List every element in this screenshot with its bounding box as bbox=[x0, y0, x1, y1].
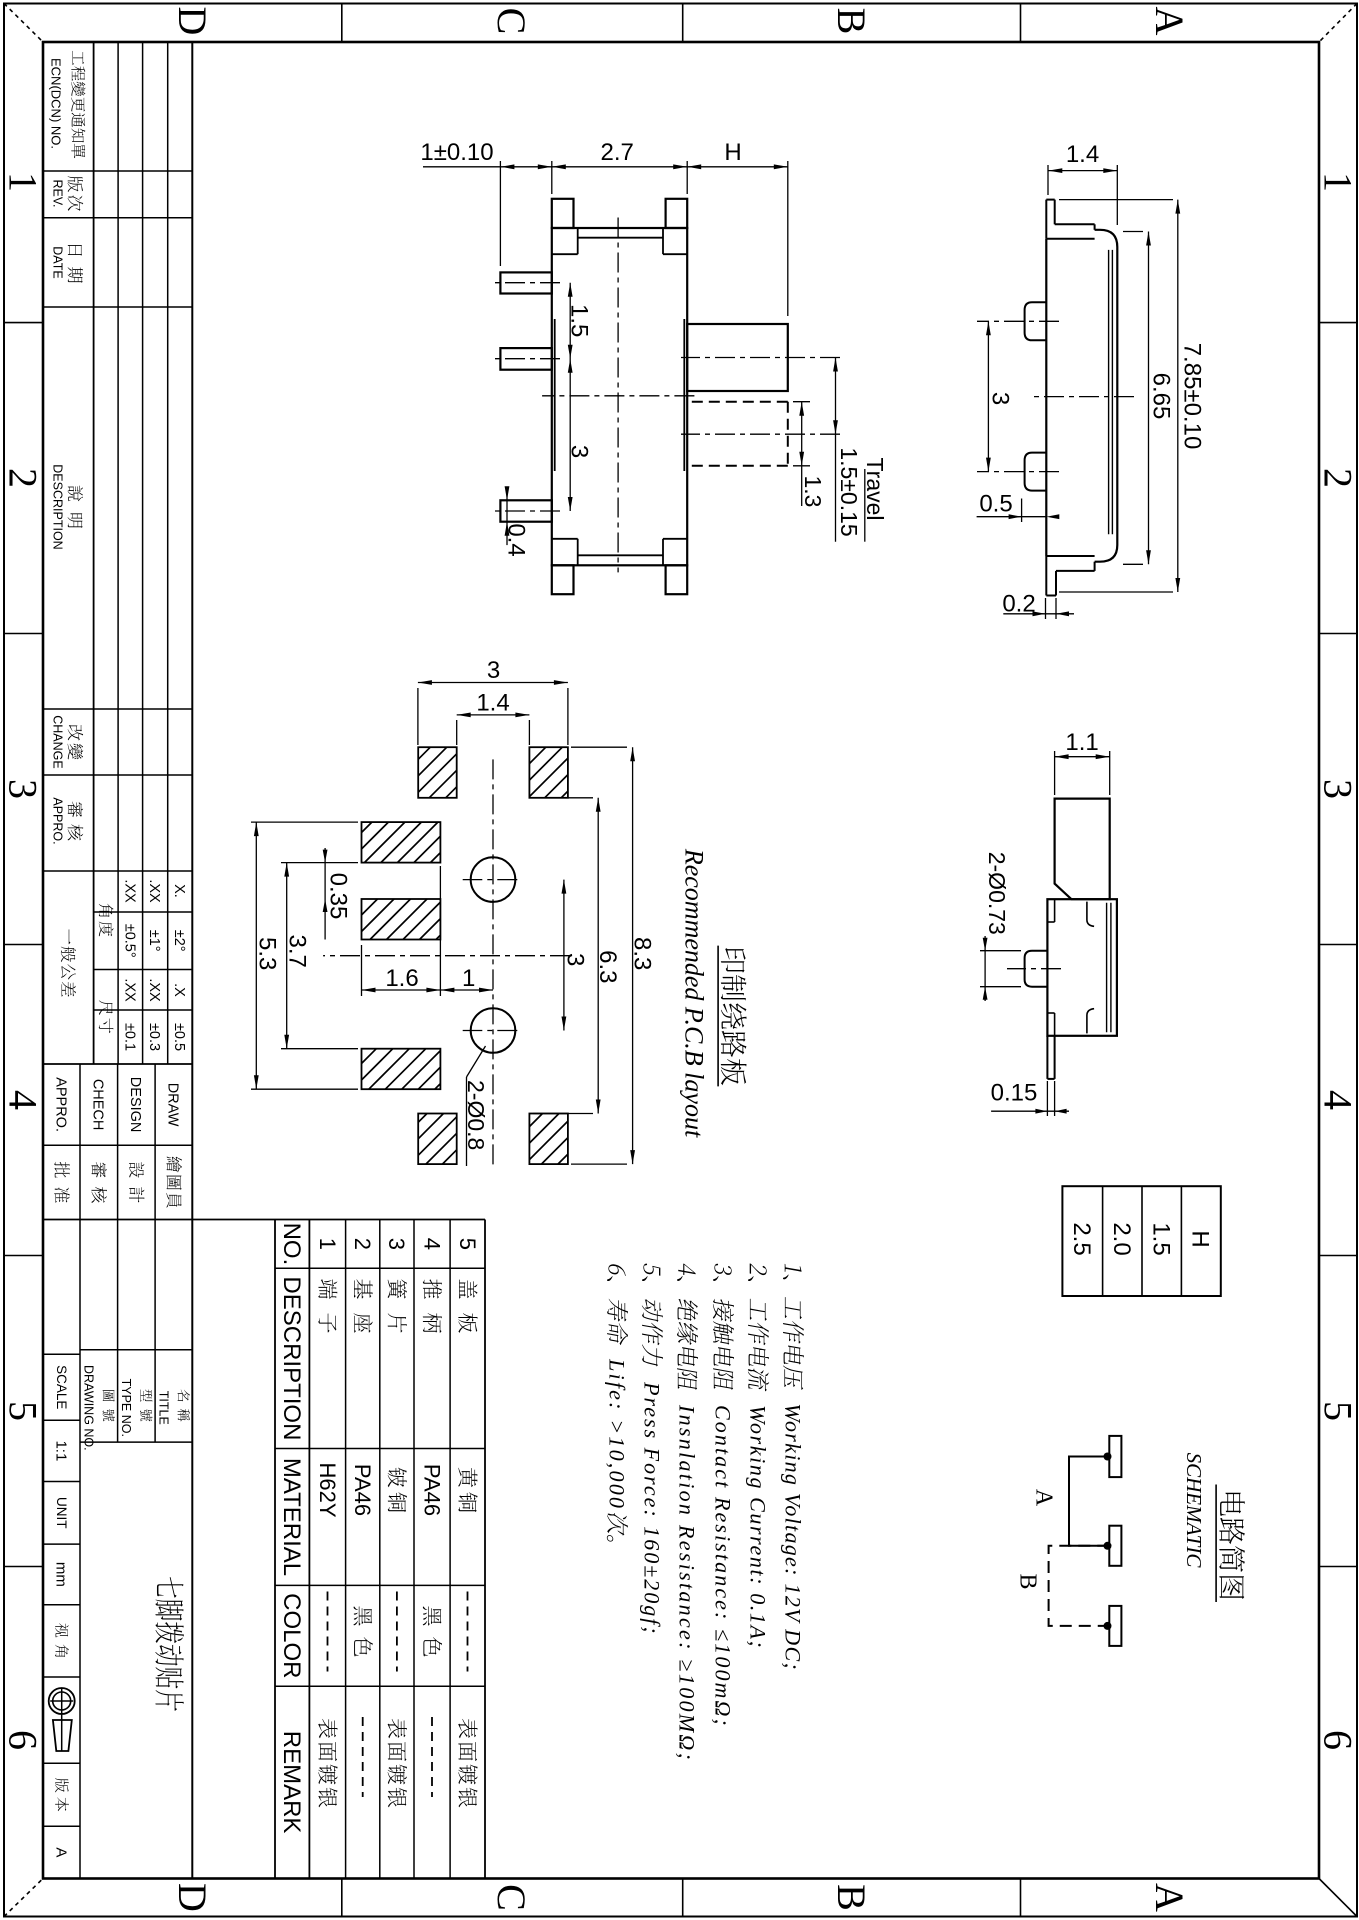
svg-text:Insnlation Resistance: ≥100MΩ;: Insnlation Resistance: ≥100MΩ; bbox=[674, 1404, 699, 1762]
side view pin center lines bbox=[977, 320, 1059, 322]
svg-text:0.15: 0.15 bbox=[991, 1079, 1038, 1106]
svg-text:Travel: Travel bbox=[862, 457, 888, 520]
PCB dimension 8.3 overall bbox=[571, 746, 627, 748]
svg-text:1: 1 bbox=[462, 965, 475, 992]
main view cover inner flanges right bbox=[663, 538, 687, 540]
svg-text:±0.1: ±0.1 bbox=[121, 1023, 137, 1051]
main view switch body bbox=[552, 228, 687, 565]
dimension 1.5 and 3 pin pitch bbox=[569, 283, 571, 511]
svg-text:Recommended P.C.B layout: Recommended P.C.B layout bbox=[679, 848, 708, 1138]
svg-text:3.7: 3.7 bbox=[283, 935, 310, 968]
side view cover inner seam bbox=[1111, 250, 1113, 534]
svg-text:3: 3 bbox=[987, 392, 1014, 405]
svg-text:.X: .X bbox=[171, 983, 187, 997]
svg-text:REMARK: REMARK bbox=[278, 1731, 305, 1834]
PCB layout title bbox=[721, 948, 746, 972]
note line 4 bbox=[677, 1262, 698, 1392]
main view knob (dashed moved position) bbox=[687, 401, 788, 403]
dimension line column left of main view bbox=[423, 166, 788, 168]
svg-text:2-Ø0.73: 2-Ø0.73 bbox=[984, 852, 1010, 935]
svg-text:Press Force: 160±20gf;: Press Force: 160±20gf; bbox=[639, 1381, 664, 1636]
svg-text:SCHEMATIC: SCHEMATIC bbox=[1182, 1453, 1206, 1569]
side view body bottom edge bbox=[1045, 239, 1047, 556]
svg-text:6.3: 6.3 bbox=[594, 950, 621, 983]
svg-text:3: 3 bbox=[562, 953, 589, 966]
schematic terminal 2 bbox=[1109, 1526, 1121, 1566]
end view body bbox=[1047, 899, 1117, 1036]
svg-text:DESIGN: DESIGN bbox=[127, 1077, 143, 1133]
svg-text:UNIT: UNIT bbox=[54, 1497, 69, 1529]
side view body outline bbox=[1116, 247, 1118, 545]
schematic wire A solid bbox=[1069, 1457, 1109, 1546]
svg-text:1.5: 1.5 bbox=[1147, 1222, 1174, 1255]
svg-text:2: 2 bbox=[1, 468, 46, 488]
svg-text:.XX: .XX bbox=[121, 879, 137, 903]
note line 5 bbox=[642, 1263, 663, 1368]
PCB dimension 1 hole offset bbox=[440, 989, 493, 991]
svg-text:APPRO.: APPRO. bbox=[51, 797, 65, 844]
svg-text:NO.: NO. bbox=[278, 1223, 305, 1266]
dimension 3 side pin pitch bbox=[987, 321, 989, 471]
svg-text:2.0: 2.0 bbox=[1108, 1222, 1135, 1255]
parts table grid bbox=[484, 1220, 486, 1879]
svg-text:±0.5°: ±0.5° bbox=[121, 924, 137, 958]
svg-text:1.3: 1.3 bbox=[800, 476, 826, 508]
svg-text:PA46: PA46 bbox=[419, 1464, 444, 1516]
svg-text:1: 1 bbox=[315, 1238, 340, 1250]
svg-text:B: B bbox=[1015, 1573, 1041, 1589]
svg-text:1.4: 1.4 bbox=[1066, 141, 1099, 168]
drawing title text seven-pin slide switch SMD bbox=[157, 1577, 183, 1598]
svg-text:1.6: 1.6 bbox=[385, 965, 418, 992]
PCB dimension 6.3 bbox=[533, 797, 593, 799]
end view pin center line bbox=[1007, 968, 1061, 970]
svg-text:3: 3 bbox=[566, 445, 593, 458]
svg-text:5.3: 5.3 bbox=[253, 937, 280, 970]
svg-text:H: H bbox=[724, 139, 741, 166]
svg-text:2: 2 bbox=[1316, 468, 1359, 488]
dimension 0.5 pin protrusion bbox=[1021, 499, 1023, 523]
main view center lines bbox=[617, 218, 619, 573]
svg-text:6.65: 6.65 bbox=[1148, 373, 1175, 420]
tolerance block grid bbox=[43, 1063, 192, 1065]
svg-text:Life: >10,000: Life: >10,000 bbox=[604, 1358, 629, 1510]
main view cover corner ears right bbox=[666, 565, 688, 594]
svg-text:8.3: 8.3 bbox=[628, 937, 655, 970]
schematic terminal 1 bbox=[1109, 1436, 1121, 1477]
dimension Travel 1.5±0.15 bbox=[835, 358, 837, 542]
dimension 7.85±0.10 overall width bbox=[1059, 199, 1173, 201]
svg-text:DATE: DATE bbox=[51, 246, 65, 278]
svg-text:TYPE NO.: TYPE NO. bbox=[119, 1379, 133, 1437]
svg-text:1.5: 1.5 bbox=[566, 304, 593, 337]
dimension 0.2 hook thickness bbox=[1055, 598, 1057, 619]
tolerance row labels angle/size bbox=[99, 904, 114, 917]
revision table header REV. bbox=[68, 176, 84, 192]
main view pins bbox=[500, 272, 551, 293]
zone ticks left and right bands bbox=[1020, 4, 1022, 43]
svg-text:5: 5 bbox=[455, 1238, 480, 1250]
note line 3 bbox=[713, 1263, 734, 1393]
schematic title bbox=[1220, 1493, 1245, 1516]
svg-text:.XX: .XX bbox=[146, 978, 162, 1002]
PCB dimension 3 hole pitch bbox=[563, 880, 565, 1031]
main view cover side straps bbox=[578, 237, 663, 239]
svg-text:0.4: 0.4 bbox=[503, 523, 530, 556]
svg-text:B: B bbox=[829, 1884, 874, 1911]
svg-text:2: 2 bbox=[350, 1238, 375, 1250]
dimension 0.4 pin width bbox=[506, 494, 508, 545]
revision table header DATE bbox=[68, 245, 82, 256]
main view knob (solid position) bbox=[687, 324, 788, 391]
PCB pad corner bottom-right bbox=[442, 1150, 456, 1164]
revision table header ECN(DCN) NO. bbox=[73, 51, 84, 65]
svg-text:±0.5: ±0.5 bbox=[171, 1023, 187, 1051]
svg-text:1.4: 1.4 bbox=[476, 690, 509, 717]
tolerance block title general tolerance bbox=[69, 929, 71, 944]
PCB pad corner top-right bbox=[558, 1154, 568, 1164]
PCB pad corner bottom-left bbox=[446, 787, 457, 798]
schematic terminal 3 bbox=[1109, 1606, 1121, 1646]
svg-text:1.1: 1.1 bbox=[1065, 729, 1098, 756]
main view knob center lines bbox=[681, 357, 840, 359]
corner trim marks bbox=[4, 4, 43, 43]
PCB dimension 0.35 pad gap bbox=[324, 848, 326, 940]
end view inner seam bbox=[1110, 903, 1112, 1032]
end view base details bbox=[1054, 899, 1056, 922]
PCB pad middle 2 bbox=[436, 935, 440, 939]
svg-text:C: C bbox=[489, 8, 534, 35]
revision table header APPRO. bbox=[68, 802, 83, 818]
zone ticks top and bottom bands bbox=[1319, 322, 1357, 324]
title block labels TITLE/TYPE NO/DRAWING NO bbox=[178, 1389, 190, 1401]
svg-text:0.5: 0.5 bbox=[979, 490, 1012, 517]
svg-text:4: 4 bbox=[1316, 1090, 1359, 1110]
PCB center lines bbox=[492, 759, 494, 1166]
svg-text:2-Ø0.8: 2-Ø0.8 bbox=[463, 1080, 489, 1150]
side view left cover hook bbox=[1094, 224, 1096, 230]
title block grid bbox=[80, 1349, 192, 1351]
svg-text:SCALE: SCALE bbox=[54, 1365, 69, 1409]
svg-text:PA46: PA46 bbox=[350, 1464, 375, 1516]
first angle projection symbol bbox=[49, 1688, 75, 1714]
dimension 0.15 tab thickness bbox=[1054, 1081, 1056, 1116]
svg-text:APPRO.: APPRO. bbox=[53, 1077, 69, 1132]
signature block DRAW/DESIGN/CHECH/APPRO grid bbox=[43, 1144, 192, 1146]
PCB pad middle 3 bbox=[435, 1084, 441, 1090]
svg-text:3: 3 bbox=[384, 1238, 409, 1250]
end view knob neck notches bbox=[1087, 902, 1094, 927]
svg-text:TITLE: TITLE bbox=[157, 1391, 171, 1425]
svg-text:0.2: 0.2 bbox=[1002, 590, 1035, 617]
svg-text:6: 6 bbox=[1316, 1730, 1359, 1750]
main view cover inner flanges left bbox=[663, 253, 687, 255]
svg-text:1: 1 bbox=[1, 172, 46, 192]
PCB dimension 1.4 inner gap bbox=[528, 720, 530, 745]
svg-text:A: A bbox=[1147, 7, 1192, 36]
svg-text:A: A bbox=[52, 1847, 69, 1857]
svg-text:X.: X. bbox=[171, 884, 187, 898]
svg-text:4: 4 bbox=[419, 1238, 444, 1250]
svg-text:5: 5 bbox=[1316, 1401, 1359, 1421]
end view knob bbox=[1055, 799, 1110, 900]
side view center line bbox=[1029, 396, 1134, 398]
svg-text:Working Voltage: 12V DC;: Working Voltage: 12V DC; bbox=[780, 1403, 805, 1671]
note line 6 bbox=[607, 1263, 628, 1346]
svg-text:±1°: ±1° bbox=[146, 930, 162, 952]
dimension 1.4 cover height bbox=[1116, 165, 1118, 225]
PCB annotation 2-Ø0.8 with leader bbox=[467, 1046, 486, 1077]
main view cover corner ears left bbox=[666, 199, 688, 228]
svg-text:7.85±0.10: 7.85±0.10 bbox=[1179, 343, 1206, 450]
svg-text:3: 3 bbox=[1316, 779, 1359, 799]
svg-text:.XX: .XX bbox=[146, 879, 162, 903]
PCB dimension 5.3 bbox=[251, 821, 358, 823]
dimension 2-Ø0.73 pin diameter bbox=[980, 950, 1021, 952]
svg-text:CHANGE: CHANGE bbox=[51, 715, 65, 768]
PCB dimension 3.7 bbox=[281, 862, 358, 864]
svg-text:1:1: 1:1 bbox=[52, 1440, 69, 1461]
svg-text:3: 3 bbox=[1, 779, 46, 799]
PCB drill holes 2-Ø0.8 bbox=[471, 857, 516, 902]
revision table grid bbox=[191, 42, 193, 1879]
schematic wire B dashed bbox=[1049, 1546, 1110, 1626]
PCB pad corner top-left bbox=[561, 791, 568, 798]
H selection table bbox=[1062, 1186, 1220, 1296]
svg-text:H: H bbox=[1187, 1230, 1214, 1247]
svg-text:D: D bbox=[170, 7, 215, 36]
svg-text:4: 4 bbox=[1, 1090, 46, 1110]
svg-text:REV.: REV. bbox=[51, 179, 65, 207]
svg-text:DESCRIPTION: DESCRIPTION bbox=[51, 464, 65, 549]
svg-text:1.5±0.15: 1.5±0.15 bbox=[836, 447, 862, 536]
svg-text:DRAWING NO.: DRAWING NO. bbox=[82, 1365, 96, 1451]
side view pins bbox=[1025, 302, 1047, 340]
svg-text:2.5: 2.5 bbox=[1068, 1222, 1095, 1255]
main view base seam lines bbox=[683, 319, 685, 471]
end view pin bbox=[1025, 951, 1048, 987]
revision table header CHANGE bbox=[68, 725, 83, 740]
PCB pad middle 1 bbox=[430, 853, 440, 863]
svg-text:0.35: 0.35 bbox=[325, 873, 352, 920]
svg-text:DRAW: DRAW bbox=[165, 1083, 181, 1127]
svg-text:A: A bbox=[1031, 1489, 1057, 1507]
svg-text:1: 1 bbox=[1316, 172, 1359, 192]
svg-text:DESCRIPTION: DESCRIPTION bbox=[278, 1276, 305, 1440]
svg-text:C: C bbox=[489, 1884, 534, 1911]
svg-text:B: B bbox=[829, 8, 874, 35]
PCB dimension 3 outer pads bbox=[567, 688, 569, 745]
svg-text:3: 3 bbox=[487, 657, 500, 684]
svg-text:±0.3: ±0.3 bbox=[146, 1023, 162, 1051]
svg-text:CHECH: CHECH bbox=[90, 1079, 106, 1131]
PCB dimension 1.6 pad height bbox=[439, 866, 441, 996]
svg-text:D: D bbox=[170, 1883, 215, 1912]
main view pin center lines bbox=[491, 282, 560, 284]
svg-text:6: 6 bbox=[1, 1730, 46, 1750]
svg-text:Contact Resistance: ≤100mΩ;: Contact Resistance: ≤100mΩ; bbox=[710, 1405, 735, 1728]
svg-text:.XX: .XX bbox=[121, 978, 137, 1002]
dimension 1.3 knob width bbox=[793, 401, 810, 403]
svg-text:±2°: ±2° bbox=[171, 930, 187, 952]
svg-text:2.7: 2.7 bbox=[601, 139, 634, 166]
svg-text:MATERIAL: MATERIAL bbox=[278, 1458, 305, 1576]
note line 2 bbox=[748, 1263, 769, 1392]
svg-text:A: A bbox=[1147, 1883, 1192, 1912]
dimension H 2.7 1±0.10 extension lines bbox=[787, 161, 789, 316]
side view right cover hook bbox=[1094, 562, 1096, 571]
svg-text:1±0.10: 1±0.10 bbox=[420, 139, 493, 166]
end view solder tab bbox=[1054, 1036, 1056, 1079]
dimension 6.65 cover width bbox=[1123, 231, 1143, 233]
svg-text:ECN(DCN) NO.: ECN(DCN) NO. bbox=[49, 58, 64, 149]
svg-text:5: 5 bbox=[1, 1401, 46, 1421]
revision table header DESCRIPTION bbox=[68, 486, 83, 502]
note line 1 bbox=[783, 1263, 804, 1390]
svg-text:Working Current: 0.1A;: Working Current: 0.1A; bbox=[745, 1405, 770, 1649]
svg-text:COLOR: COLOR bbox=[278, 1593, 305, 1678]
svg-text:mm: mm bbox=[52, 1562, 69, 1587]
svg-text:H62Y: H62Y bbox=[315, 1462, 340, 1517]
dimension 1.1 knob height bbox=[1109, 751, 1111, 795]
